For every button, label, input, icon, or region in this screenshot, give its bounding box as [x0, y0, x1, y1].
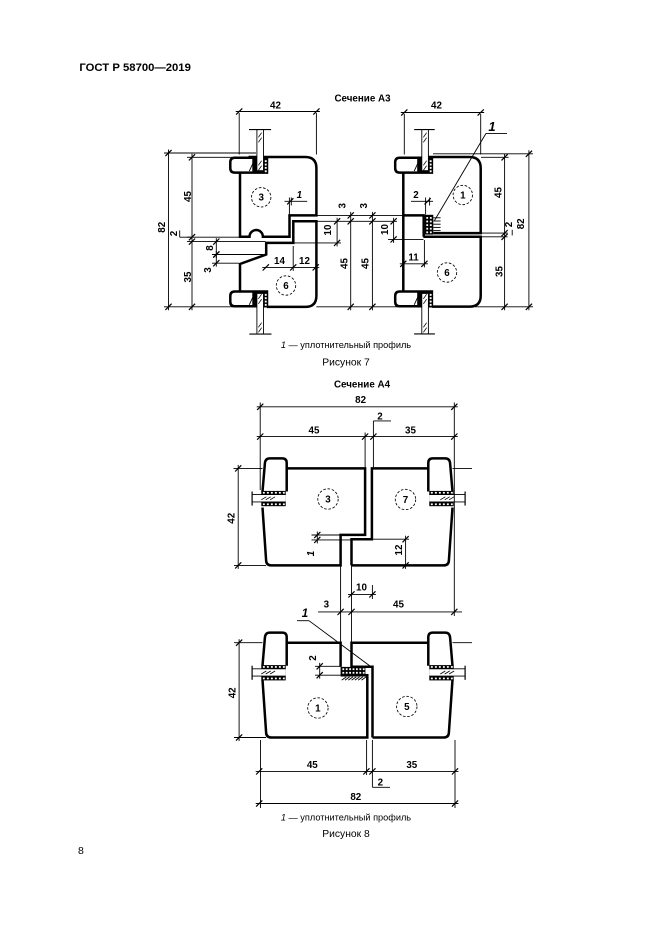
- fig8 dim 10 middle: [348, 593, 376, 595]
- fig7 gasket fins: [433, 217, 440, 219]
- fig7 R-top glazing cap: [414, 129, 435, 131]
- fig7 R-top glazing hatch: [423, 133, 426, 138]
- fig8 dim 45-2-35 bottom: [256, 770, 459, 772]
- fig7 R-top nose gasket groove (black): [417, 159, 431, 172]
- fig7 L-top nose gasket groove (black): [252, 159, 266, 172]
- svg-text:Сечение А4: Сечение А4: [334, 379, 391, 390]
- svg-text:42: 42: [227, 512, 238, 523]
- ref bubble 7 fig8: [395, 489, 415, 509]
- fig7 profile 1 left edge and bottom ledge: [403, 172, 425, 215]
- svg-text:45: 45: [183, 191, 194, 202]
- svg-text:1: 1: [315, 703, 321, 714]
- svg-text:6: 6: [444, 268, 450, 279]
- fig7 dim 10 right-profile: [393, 218, 395, 243]
- ref bubble 5 fig8: [397, 696, 417, 716]
- fig8 top-left nose glazing bar: [252, 495, 286, 502]
- fig8 top-right nose body outline: [428, 458, 452, 491]
- svg-text:1: 1: [297, 190, 302, 201]
- fig7 dim 8 left: [215, 238, 217, 258]
- fig8 bottom-right nose glazing bar: [429, 669, 465, 676]
- svg-text:12: 12: [299, 256, 310, 267]
- fig8 extension lines bottom: [260, 740, 262, 808]
- svg-text:2: 2: [378, 777, 384, 788]
- fig8 profile 3 outline: [263, 468, 366, 565]
- fig7 dim 10 left-profile: [336, 218, 338, 247]
- svg-text:12: 12: [394, 544, 405, 555]
- fig8 dim 42 bottom pair: [238, 639, 240, 741]
- svg-text:45: 45: [339, 258, 350, 269]
- svg-text:5: 5: [404, 702, 410, 713]
- svg-text:11: 11: [408, 252, 419, 263]
- ref bubble 1 fig8: [308, 698, 328, 718]
- svg-text:7: 7: [403, 495, 409, 506]
- fig7 dim 2 right-upper: [425, 198, 427, 215]
- svg-text:2: 2: [169, 230, 180, 236]
- svg-text:1 — уплотнительный профиль: 1 — уплотнительный профиль: [281, 340, 411, 350]
- svg-text:2: 2: [413, 190, 419, 201]
- svg-text:3: 3: [258, 193, 264, 204]
- fig7 R-top nose body outline: [395, 158, 432, 173]
- fig8 gasket hatch below: [342, 677, 347, 680]
- fig7 dim 82 left: [168, 150, 170, 311]
- fig8 dim 2 bottom callout: [371, 771, 373, 787]
- fig8 dim 45-2-35 top: [257, 436, 458, 438]
- svg-text:82: 82: [157, 221, 168, 232]
- svg-text:45: 45: [393, 600, 404, 611]
- svg-text:45: 45: [360, 258, 371, 269]
- fig7 profile 3 outline: [240, 157, 316, 237]
- fig7 dim 42 left: [236, 111, 320, 113]
- fig8 dim 3-45 line: [318, 611, 462, 613]
- fig7 dim 1 small: [288, 198, 290, 216]
- fig7 dim line B 3/45: [371, 212, 373, 310]
- fig8 bottom-right nose gasket groove (black): [429, 665, 453, 680]
- fig7 profile 6 right outline: [402, 215, 405, 291]
- fig7 R-bottom nose wood hatch: [414, 293, 420, 305]
- svg-text:3: 3: [325, 494, 331, 505]
- svg-text:10: 10: [323, 224, 334, 235]
- fig7 R-bottom glazing hatch: [423, 294, 426, 299]
- fig7 dim 11: [400, 263, 428, 265]
- svg-text:Сечение А3: Сечение А3: [334, 94, 391, 105]
- svg-text:8: 8: [205, 245, 216, 251]
- fig8 profile 1 outline: [263, 643, 368, 738]
- fig7 L-bottom nose glazing strip: [257, 294, 264, 334]
- svg-text:45: 45: [307, 760, 318, 771]
- fig7 dim line A 3/45: [350, 212, 352, 310]
- fig7 L-bottom glazing hatch: [258, 294, 261, 299]
- svg-text:8: 8: [78, 845, 84, 857]
- fig8 bottom-left nose glazing bar: [252, 669, 286, 676]
- fig8 top-left nose body outline: [263, 458, 287, 491]
- svg-text:42: 42: [270, 100, 281, 111]
- fig7 gasket profile 1 (seal) block: [425, 215, 433, 235]
- fig7 dim 45-2-35 left line: [191, 154, 193, 310]
- svg-text:10: 10: [356, 583, 367, 594]
- svg-text:3: 3: [338, 203, 349, 209]
- svg-text:ГОСТ Р 58700—2019: ГОСТ Р 58700—2019: [79, 62, 190, 74]
- fig7 L-bottom nose wood hatch: [249, 293, 255, 305]
- fig7 L-top nose glazing strip: [257, 130, 264, 171]
- svg-text:3: 3: [324, 600, 330, 611]
- ref bubble 6 left: [276, 276, 295, 295]
- fig7 dim 42 right: [401, 112, 484, 114]
- fig7 R-bottom glazing cap: [414, 333, 435, 335]
- fig8 dim 42 top pair: [237, 465, 239, 569]
- fig7 R-bottom nose gasket groove (black): [417, 293, 431, 306]
- svg-text:6: 6: [283, 281, 289, 292]
- svg-text:1: 1: [302, 608, 308, 620]
- fig8 profile 7 outline: [352, 468, 453, 565]
- svg-text:1: 1: [306, 551, 317, 556]
- fig7 dim 82 right: [528, 150, 530, 310]
- fig8 top-right nose gasket groove (black): [429, 491, 453, 506]
- fig7 L-top nose wood hatch: [249, 159, 255, 171]
- svg-text:82: 82: [516, 218, 527, 229]
- svg-text:82: 82: [355, 395, 366, 406]
- fig8 dim 1 middle: [312, 534, 341, 536]
- fig8 bottom-right nose body outline: [428, 633, 452, 666]
- fig7 profile 6 outline: [240, 221, 316, 307]
- svg-text:35: 35: [406, 760, 417, 771]
- ref bubble 1: [453, 185, 472, 204]
- svg-text:1: 1: [488, 119, 495, 134]
- svg-text:1 — уплотнительный профиль: 1 — уплотнительный профиль: [281, 813, 411, 823]
- fig8 top-right nose glazing bar: [429, 495, 465, 502]
- fig7 L-top glazing hatch: [258, 133, 261, 138]
- svg-text:2: 2: [504, 221, 515, 227]
- svg-text:35: 35: [494, 266, 505, 277]
- fig8 bottom-left nose body outline: [263, 633, 287, 666]
- fig7 L-top glazing cap: [249, 129, 271, 131]
- svg-text:82: 82: [350, 792, 361, 803]
- svg-text:Рисунок 8: Рисунок 8: [322, 829, 370, 840]
- fig7 L-bottom nose body outline: [230, 292, 267, 307]
- fig7 R-bottom nose glazing strip: [422, 294, 429, 334]
- svg-text:35: 35: [405, 426, 416, 437]
- svg-text:10: 10: [380, 224, 391, 235]
- ref bubble 6 right: [437, 263, 456, 282]
- fig8 top-left nose gasket groove (black): [261, 491, 285, 506]
- ref bubble 3 fig8: [318, 489, 338, 509]
- fig8 profile 5 outline: [352, 643, 453, 738]
- svg-text:45: 45: [309, 426, 320, 437]
- svg-text:14: 14: [274, 256, 285, 267]
- svg-text:42: 42: [227, 687, 238, 698]
- fig8 dim 82 top: [257, 406, 458, 408]
- fig7 middle joint extension lines: [316, 214, 403, 216]
- svg-text:3: 3: [359, 203, 370, 209]
- fig7 L-top nose body outline: [230, 158, 267, 173]
- fig7 L-bottom nose gasket groove (black): [252, 293, 266, 306]
- fig8 extensions middle: [340, 565, 342, 642]
- svg-text:1: 1: [460, 190, 466, 201]
- svg-text:35: 35: [183, 271, 194, 282]
- fig8 gasket seal block: [341, 667, 366, 675]
- svg-text:2: 2: [308, 655, 319, 661]
- svg-text:45: 45: [493, 187, 504, 198]
- fig7 profile 1 outline: [428, 157, 481, 233]
- fig8 extension lines top: [259, 403, 261, 491]
- fig7 right side dims 45-2-35: [504, 154, 506, 310]
- fig7 dim 14-12: [262, 266, 319, 268]
- ref bubble 3: [252, 188, 271, 207]
- fig7 dim 3 left: [215, 251, 217, 267]
- svg-text:3: 3: [203, 267, 214, 273]
- fig8 dim 12: [372, 538, 409, 540]
- fig8 bottom-left nose gasket groove (black): [261, 665, 285, 680]
- fig7 L-bottom glazing cap: [249, 333, 271, 335]
- fig7 R-bottom nose body outline: [395, 292, 432, 307]
- fig7 R-top nose glazing strip: [422, 130, 429, 171]
- fig7 R-top nose wood hatch: [414, 159, 420, 171]
- fig8 dim 82 bottom: [256, 803, 459, 805]
- svg-text:Рисунок 7: Рисунок 7: [322, 357, 370, 368]
- svg-text:42: 42: [431, 100, 442, 111]
- fig8 dim 2 gasket: [315, 665, 341, 667]
